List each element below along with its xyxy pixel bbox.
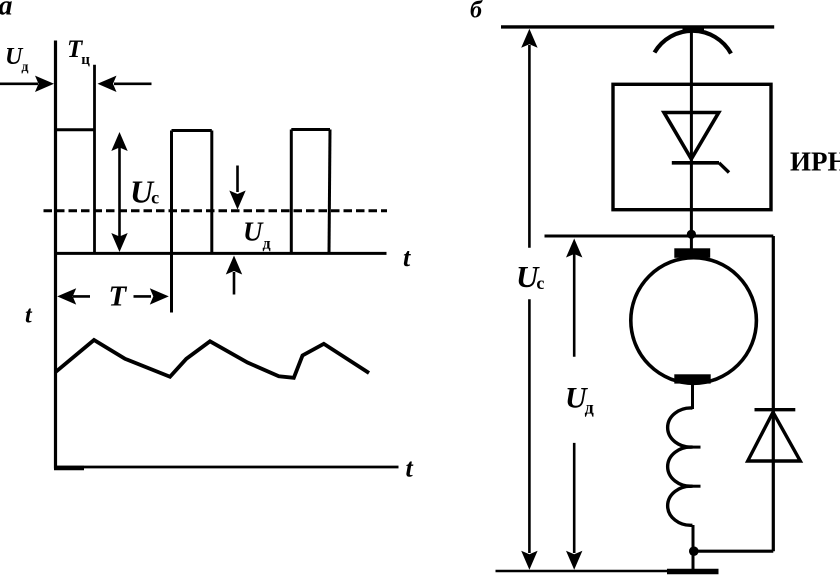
svg-text:а: а: [0, 0, 13, 22]
right branch wire (freewheel diode branch): [772, 236, 775, 551]
pulse 3 left edge: [290, 130, 293, 254]
smoothing reactor L (3 arcs): [668, 408, 701, 525]
node B (junction dot): [689, 546, 699, 556]
T period arrow right (pointing right at marker): [134, 288, 169, 304]
svg-text:t: t: [403, 243, 411, 272]
pulse 2 right edge: [210, 131, 213, 254]
T period arrow left (pointing left at axis): [57, 288, 90, 304]
motor M armature circle: [631, 258, 757, 384]
U_c double arrow (supply voltage amplitude): [111, 132, 127, 252]
freewheel diode VD cathode bar: [755, 408, 796, 411]
pulse 1 falling edge + Tц marker line: [93, 65, 96, 253]
pulse 1 top: [54, 128, 95, 131]
svg-text:t: t: [406, 454, 414, 483]
freewheel diode VD triangle: [748, 412, 801, 461]
node A (junction dot): [687, 230, 696, 239]
motor current ripple waveform: [55, 340, 369, 378]
pantograph bow arc: [655, 31, 732, 54]
wire reactor to node B: [692, 525, 695, 571]
rail thick segment: [667, 569, 719, 574]
thyristor VS (triangle): [664, 113, 719, 160]
motor M bottom brush: [674, 374, 710, 383]
svg-text:б: б: [470, 0, 483, 24]
vertical axis (shared U / i axis): [54, 41, 57, 469]
horizontal bus at node A: [545, 235, 774, 238]
U_д dimension arrow bottom: [566, 443, 582, 570]
Tц dimension arrow left (pointing right at axis): [0, 76, 54, 92]
U_д dimension arrow top (motor voltage): [566, 239, 582, 357]
pantograph contact shoe: [683, 26, 705, 32]
motor M top brush: [674, 248, 710, 257]
pulse 3 top: [291, 128, 330, 131]
svg-text:T: T: [109, 281, 128, 313]
regulator box (ИРН): [613, 84, 771, 209]
pulse 3 right edge: [329, 130, 330, 254]
pulse 2 top: [172, 129, 212, 132]
U_c dimension arrow bottom: [521, 299, 537, 570]
dashed average-voltage level line: [44, 209, 388, 212]
U_c dimension arrow top (supply voltage): [521, 29, 537, 248]
wire node A to motor brush: [690, 234, 693, 250]
lower axis thick corner segment: [54, 466, 84, 471]
svg-text:ИРН: ИРН: [790, 147, 840, 177]
rail (return) line: [496, 570, 719, 573]
feed wire from pantograph into regulator: [690, 27, 693, 85]
up arrow to baseline: [226, 256, 242, 295]
upper time axis t: [54, 252, 387, 255]
lower time axis t: [54, 466, 399, 469]
wire motor to smoothing reactor: [691, 384, 694, 410]
down arrow to dashed level: [229, 166, 245, 210]
thyristor cathode bar: [672, 161, 719, 165]
pulse 2 left edge + T marker extension: [170, 131, 173, 313]
Tц dimension arrow right (pointing left at marker): [98, 76, 152, 92]
thyristor gate lead: [719, 163, 729, 173]
overhead contact wire: [501, 25, 774, 28]
bottom wire node B to diode branch: [694, 550, 774, 553]
wire through regulator to node: [690, 84, 693, 234]
